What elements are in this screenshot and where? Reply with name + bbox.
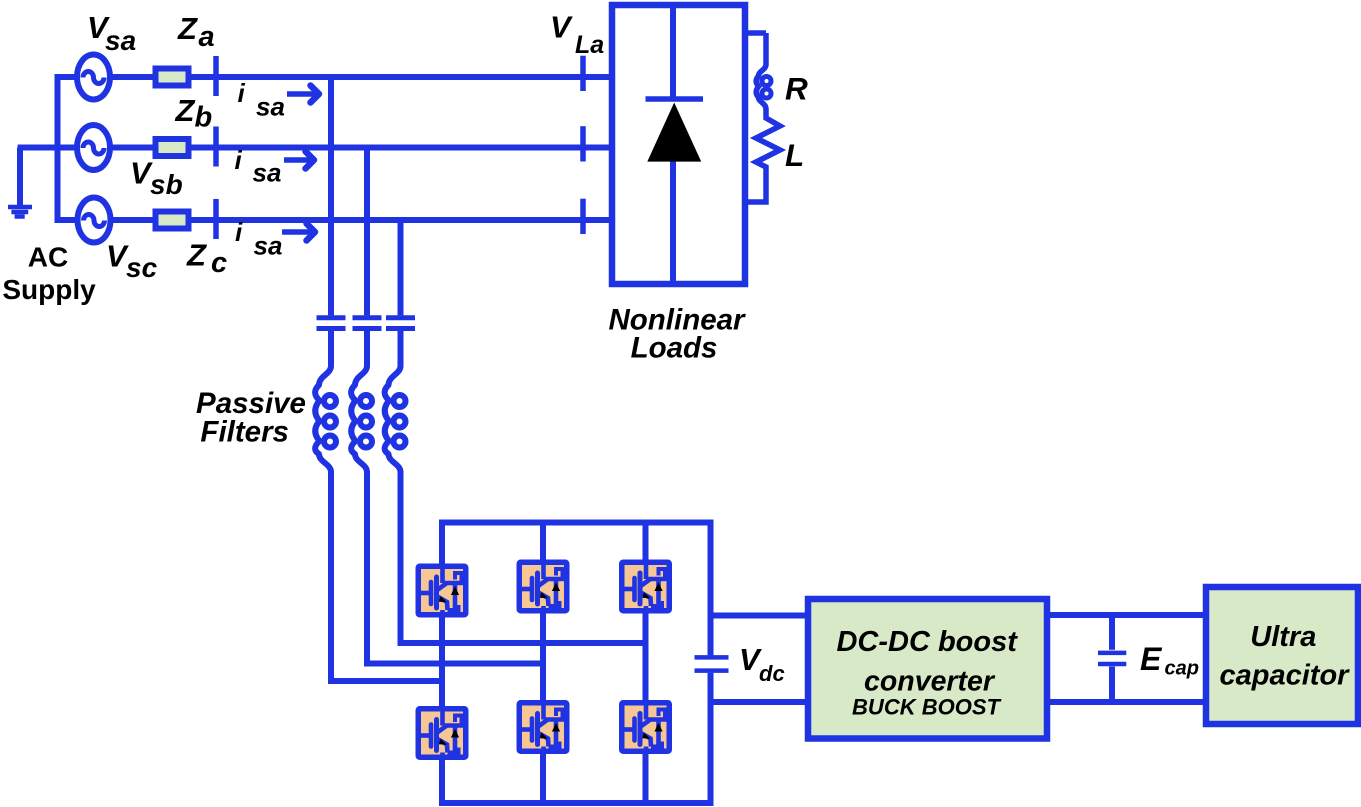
svg-text:L: L [785,137,804,173]
svg-text:b: b [195,102,213,134]
svg-text:Z: Z [175,93,196,128]
svg-text:i: i [238,78,246,108]
svg-text:cap: cap [1165,658,1199,680]
svg-text:Z: Z [177,11,198,46]
svg-text:converter: converter [864,666,996,698]
svg-text:c: c [211,247,227,279]
svg-text:Loads: Loads [631,332,718,365]
svg-text:E: E [1140,641,1163,677]
svg-text:La: La [575,31,604,59]
svg-text:capacitor: capacitor [1220,660,1351,692]
svg-text:sa: sa [253,158,282,188]
svg-text:Z: Z [186,238,207,273]
svg-text:i: i [235,145,243,175]
svg-text:Supply: Supply [2,274,96,305]
svg-text:i: i [235,217,243,247]
svg-text:sb: sb [150,169,183,200]
svg-text:DC-DC boost: DC-DC boost [836,626,1018,658]
svg-text:BUCK BOOST: BUCK BOOST [852,695,1001,720]
svg-text:sa: sa [254,231,283,261]
svg-text:sa: sa [256,92,285,122]
svg-text:dc: dc [759,661,785,686]
svg-text:sc: sc [126,252,158,283]
svg-text:sa: sa [105,25,136,56]
svg-text:Filters: Filters [200,416,289,449]
svg-text:V: V [550,10,573,45]
svg-text:Ultra: Ultra [1250,621,1316,653]
svg-text:AC: AC [28,242,68,273]
svg-text:a: a [199,21,215,53]
svg-text:R: R [785,71,808,107]
